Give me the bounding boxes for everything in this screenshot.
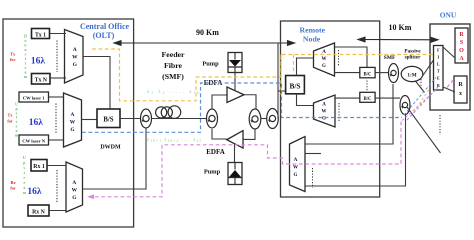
- svg-text:E: E: [437, 76, 440, 81]
- svg-text:A: A: [73, 47, 77, 53]
- remote node box: [281, 21, 380, 197]
- label Remote Node: [300, 25, 326, 43]
- splitter 1:M: [401, 66, 423, 81]
- ONU box: [430, 24, 470, 110]
- svg-text:Rx N: Rx N: [32, 209, 46, 215]
- svg-text:W: W: [70, 120, 76, 126]
- transmitter Tx 1: [32, 29, 50, 39]
- AWG U2 (CW mux): [64, 93, 82, 147]
- filter FILTER: [434, 46, 444, 91]
- distance arrow 90 Km: [114, 41, 295, 46]
- label Rx for (red): [10, 180, 16, 191]
- wire B/S to circulator: [120, 118, 141, 120]
- circulator C3: [249, 109, 261, 129]
- svg-text:Pump: Pump: [202, 61, 219, 68]
- dotted ports AWG6: [312, 168, 314, 188]
- wire C3 to EDFA2: [243, 129, 255, 139]
- combiner B/C 1: [360, 67, 375, 77]
- amplifier EDFA2 (upstream): [227, 131, 243, 149]
- distance arrow 10 Km: [358, 37, 438, 42]
- wire B/C2 to coil2: [375, 97, 400, 99]
- svg-text:F: F: [437, 48, 440, 53]
- wire pump1 to EDFA1: [234, 73, 236, 91]
- wire EDFA2 to C2: [212, 129, 227, 139]
- coil D2: [400, 96, 410, 115]
- label Upstream (green vertical): [23, 156, 27, 195]
- svg-text:16λ: 16λ: [29, 118, 44, 128]
- svg-text:for: for: [10, 57, 15, 62]
- AWG U6 (RN lower): [290, 137, 306, 192]
- receiver Rx N: [28, 205, 49, 216]
- svg-text:D: D: [24, 35, 27, 39]
- wire AWG2 out to B/S: [82, 119, 98, 121]
- transmitter Tx N: [32, 74, 51, 85]
- svg-text:B/C: B/C: [364, 97, 373, 102]
- svg-text:G: G: [322, 64, 326, 69]
- amplifier EDFA1 (downstream): [227, 87, 244, 103]
- svg-text:L: L: [437, 62, 440, 67]
- svg-text:O: O: [459, 48, 464, 54]
- wire fiber to remote node: [277, 43, 279, 119]
- svg-text:DWDM: DWDM: [100, 145, 121, 151]
- wire into RN B/S: [278, 90, 286, 92]
- circulator C4: [267, 109, 279, 129]
- coil D1: [389, 64, 399, 83]
- label Tx for (red, downstream): [10, 51, 16, 62]
- svg-text:Pump: Pump: [204, 169, 221, 176]
- svg-text:for: for: [10, 186, 15, 191]
- wire AWG4 to B/C1: [335, 47, 368, 67]
- svg-text:(SMF): (SMF): [162, 72, 184, 81]
- wire fiber line: [152, 118, 207, 120]
- svg-text:W: W: [322, 110, 327, 115]
- svg-text:W: W: [72, 55, 78, 61]
- svg-text:W: W: [322, 57, 327, 62]
- path upstream signal (magenta dashed): [90, 79, 454, 197]
- svg-text:B/S: B/S: [103, 116, 113, 123]
- dotted ports AWG4: [338, 50, 340, 66]
- wire 1:M to ONU filter: [422, 60, 434, 78]
- dotted separator bottom group: [56, 170, 58, 203]
- wire AWG6 bottom port loop: [305, 114, 406, 187]
- wire AWG6 stub: [305, 153, 321, 155]
- dotted below 1:M: [420, 79, 422, 89]
- svg-text:p: p: [15, 107, 17, 111]
- RSOA: [455, 28, 468, 63]
- label Central Office (OLT): [80, 22, 130, 40]
- svg-text:16λ: 16λ: [31, 57, 46, 67]
- svg-text:U: U: [23, 156, 26, 160]
- svg-text:CW laser N: CW laser N: [22, 139, 45, 144]
- pump laser P2: [228, 163, 242, 185]
- AWG U4 (RN top): [314, 43, 335, 76]
- splitter B/S (CO): [97, 109, 120, 128]
- wire CWN to AWG: [49, 139, 64, 141]
- svg-text:w: w: [24, 44, 27, 48]
- svg-text:EDFA: EDFA: [206, 148, 225, 156]
- wire AWG3 from circulator: [83, 129, 147, 190]
- svg-text:x: x: [459, 91, 462, 97]
- svg-text:Remote: Remote: [300, 25, 326, 34]
- circulator C1: [141, 109, 152, 128]
- wire C3-C4: [261, 118, 267, 120]
- svg-text:W: W: [293, 166, 298, 171]
- svg-text:U: U: [15, 103, 18, 107]
- fiber coil: [156, 106, 181, 119]
- svg-text:A: A: [71, 112, 75, 118]
- svg-text:for: for: [7, 119, 12, 124]
- svg-text:Central Office: Central Office: [80, 22, 130, 31]
- circulator C2: [207, 109, 218, 128]
- svg-text:a: a: [25, 71, 27, 75]
- svg-text:Feeder: Feeder: [162, 50, 185, 59]
- svg-text:G: G: [294, 173, 298, 178]
- svg-text:A: A: [72, 180, 76, 186]
- wire 1:M to ONU M: [415, 81, 425, 93]
- svg-text:16λ: 16λ: [27, 187, 42, 197]
- svg-text:Fibre: Fibre: [164, 61, 183, 70]
- svg-text:B/S: B/S: [289, 81, 300, 90]
- dotted between B/C boxes: [366, 81, 368, 91]
- dotted more ONUs: [439, 115, 441, 135]
- path downstream lambda1-16 (yellow dashed): [92, 49, 434, 112]
- central office box: [3, 19, 134, 227]
- wire Tx1 to AWG: [50, 33, 67, 35]
- svg-text:B/C: B/C: [364, 72, 373, 77]
- wire AWG5 to B/C2: [335, 97, 360, 99]
- svg-text:CW laser 1: CW laser 1: [23, 96, 45, 101]
- svg-text:Node: Node: [303, 35, 321, 44]
- wire TxN to AWG: [50, 77, 66, 79]
- svg-text:Tx N: Tx N: [35, 78, 48, 84]
- dotted separator middle group: [55, 104, 57, 134]
- wire Rx1 to AWG3: [47, 165, 66, 167]
- path upstream seed lambda17-32 (blue dashed): [82, 78, 436, 133]
- svg-text:W: W: [72, 188, 78, 194]
- wire B/C1 to coil: [375, 72, 389, 74]
- svg-text:T: T: [437, 69, 440, 74]
- wire CW1 to AWG: [49, 96, 64, 98]
- receiver Rx (ONU): [454, 76, 467, 103]
- svg-text:10 Km: 10 Km: [389, 23, 412, 32]
- svg-text:splitter: splitter: [405, 55, 422, 61]
- arrow magenta to Rx AWG: [87, 194, 94, 199]
- dotted ports AWG5: [338, 103, 340, 121]
- svg-text:(OLT): (OLT): [93, 31, 115, 40]
- wire pump2 to EDFA2: [234, 144, 236, 163]
- wire AWG4 port to B/C1: [335, 72, 360, 74]
- svg-text:R: R: [458, 82, 463, 88]
- svg-text:a: a: [23, 186, 25, 190]
- svg-text:A: A: [459, 56, 464, 62]
- svg-text:p: p: [23, 161, 25, 165]
- svg-text:o: o: [25, 39, 27, 43]
- wire drop to ONU M: [407, 107, 441, 153]
- svg-text:SMF: SMF: [384, 55, 396, 61]
- wire AWG out to B/S: [83, 57, 110, 110]
- combiner B/C 2: [360, 92, 375, 102]
- AWG U1 (Tx mux): [65, 30, 84, 84]
- AWG U5 (RN bottom): [314, 95, 336, 127]
- svg-text:Rx: Rx: [10, 180, 16, 185]
- label Tx for (red, upstream seed): [7, 113, 13, 124]
- wire B/S up to AWG4: [297, 58, 314, 76]
- splitter B/S (RN): [286, 76, 305, 94]
- wire circulator up to EDFA1: [212, 95, 227, 109]
- laser CW laser 1: [19, 92, 49, 102]
- svg-text:1:M: 1:M: [407, 72, 416, 78]
- svg-text:Tx 1: Tx 1: [35, 33, 46, 39]
- label Upstream (green vertical): [15, 103, 19, 138]
- wire B/S down to AWG5: [297, 94, 314, 106]
- wire RxN to AWG3: [49, 210, 66, 212]
- pump laser P1: [228, 53, 242, 73]
- svg-text:ONU: ONU: [440, 11, 457, 20]
- svg-text:Rx 1: Rx 1: [33, 164, 45, 170]
- wire filter to RSOA: [443, 47, 455, 58]
- svg-text:A: A: [294, 158, 298, 163]
- svg-text:90 Km: 90 Km: [196, 28, 219, 37]
- svg-text:A: A: [322, 103, 326, 108]
- svg-text:a: a: [16, 129, 18, 133]
- path violet dashed to ONU: [407, 87, 438, 120]
- label Feeder Fibre (SMF): [162, 50, 185, 81]
- wire EDFA1 out: [244, 95, 256, 109]
- label Passive splitter: [404, 49, 421, 61]
- dotted separator top group: [56, 41, 58, 73]
- wire filter to Rx: [443, 87, 455, 92]
- laser CW laser N: [19, 135, 49, 145]
- label Downstream (green vertical): [24, 35, 28, 80]
- receiver Rx 1: [31, 160, 47, 172]
- svg-text:R: R: [459, 32, 464, 38]
- wire AWG6 top port loop: [305, 84, 393, 144]
- AWG U3 (Rx demux): [66, 162, 83, 212]
